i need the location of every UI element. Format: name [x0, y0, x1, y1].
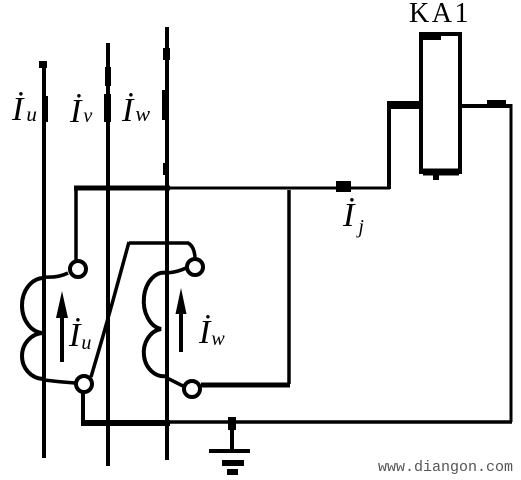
- wire: CT2 bottom terminal to riser: [201, 383, 290, 388]
- wire: diagonal cross-connection CT1 bottom to CT2 top: [91, 242, 129, 377]
- CT TA-U top lead: [44, 273, 68, 277]
- svg-text:KA1: KA1: [409, 0, 471, 29]
- CT TA-W top secondary terminal: [187, 259, 203, 275]
- current transformer TA-W secondary winding (coil bumps): [144, 273, 167, 377]
- ground symbol bar 2: [222, 460, 244, 466]
- phase conductor U: [42, 62, 46, 458]
- wire: right side vertical: [510, 104, 513, 422]
- wire: relay left lead: [389, 101, 421, 109]
- ground symbol bar 3: [227, 469, 238, 475]
- wire: drop from bus to CT1 top terminal: [74, 186, 78, 260]
- arrow for İw secondary current: [179, 298, 183, 352]
- wire: bottom ground bus: [81, 420, 512, 424]
- wire: riser from CT2 bottom up to bus: [287, 190, 291, 384]
- CT TA-U bottom secondary terminal: [76, 376, 92, 392]
- CT TA-W bottom secondary terminal: [184, 381, 200, 397]
- phase conductor W: [165, 27, 169, 460]
- wire: drop from CT1 bottom terminal to ground bus: [81, 393, 85, 422]
- wire: left lead vertical down to bus: [387, 101, 391, 189]
- ground symbol bar 1: [209, 449, 250, 453]
- CT TA-W top lead: [167, 268, 186, 273]
- CT TA-U bottom lead: [44, 380, 75, 383]
- ground stub wire: [230, 418, 234, 450]
- relay KA1 coil box: [421, 34, 460, 172]
- wire: relay right lead: [460, 104, 512, 108]
- phase conductor V: [106, 43, 110, 466]
- CT TA-U top secondary terminal: [70, 261, 86, 277]
- svg-text:www.diangon.com: www.diangon.com: [378, 459, 513, 476]
- CT TA-W bottom lead: [167, 378, 183, 386]
- wire: horizontal link to CT2 top terminal: [129, 243, 195, 257]
- current transformer TA-U secondary winding (coil bumps): [22, 278, 44, 379]
- arrow for İu secondary current: [60, 300, 64, 362]
- junction blob on bus: [336, 181, 351, 192]
- wire: main horizontal bus (CT1 top / relay): [74, 187, 390, 190]
